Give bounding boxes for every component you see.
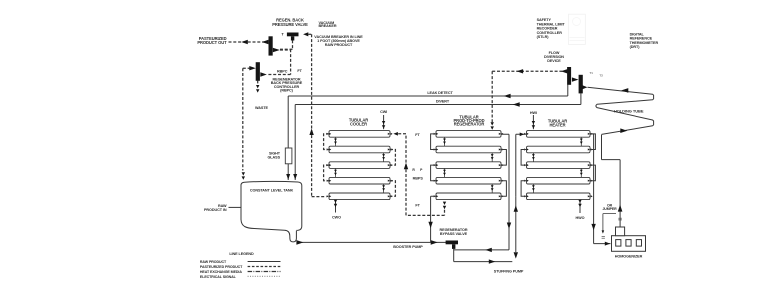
cooler media pass 1-2 — [335, 137, 337, 146]
FDD valve 1 body — [567, 67, 571, 85]
svg-text:LEAK DETECT: LEAK DETECT — [427, 91, 453, 95]
regenerator outer right U-bend 2-3 — [501, 150, 506, 166]
HWO outlet line — [579, 200, 581, 213]
heater outer right U-bend 3-4 — [590, 165, 595, 181]
svg-text:T1: T1 — [590, 71, 594, 75]
arrow from vacuum breaker line into regen back pressure valve — [303, 32, 308, 36]
regenerator tube 2 — [436, 146, 501, 153]
dashed drop into regenerator tube 1 — [491, 71, 493, 122]
leak detect line — [288, 85, 568, 180]
homogenizer outlet riser — [602, 135, 621, 227]
raw product in line — [229, 206, 242, 208]
cooler media pass 3-4 — [335, 168, 337, 177]
svg-text:HWO: HWO — [576, 216, 585, 220]
bypass valve drop and stuffing pump loop — [454, 134, 513, 261]
heater outer right U-bend 1-2 — [590, 134, 595, 150]
regenerator outer left U-bend 1-2 — [431, 134, 436, 150]
HWI inlet line — [532, 115, 534, 129]
pasteurized product out line (dashed) — [229, 41, 269, 43]
svg-text:HEATER: HEATER — [549, 122, 565, 127]
cooler outer left U-bend 1-2 — [324, 134, 329, 150]
svg-text:PASTEURIZED PRODUCT: PASTEURIZED PRODUCT — [200, 265, 243, 269]
svg-text:BOOSTER PUMP: BOOSTER PUMP — [393, 245, 423, 249]
regenerator media pass 4-5 — [491, 184, 493, 193]
valve A: pasteurized product outlet valve body — [269, 36, 273, 55]
heater tube 1 — [527, 131, 591, 138]
dashed drop to RBPC valve arm — [267, 49, 291, 74]
svg-text:HWI: HWI — [530, 111, 537, 115]
regenerator media pass 2-3 — [491, 153, 493, 162]
FDD valve 1 to valve 2 arm — [572, 77, 579, 81]
heater tube 5 — [527, 193, 591, 200]
svg-text:CONSTANT LEVEL TANK: CONSTANT LEVEL TANK — [250, 188, 294, 192]
heater media pass 1-2 — [580, 137, 582, 146]
regenerator tube 3 — [436, 162, 501, 169]
holding tube zigzag — [588, 87, 654, 134]
valve A side arm — [273, 48, 280, 53]
forward flow dashed line from FDD to regenerator — [492, 70, 567, 72]
cooler tube 4 — [329, 177, 390, 184]
regenerator media pass 3-4 — [444, 168, 446, 177]
svg-text:DEVICE: DEVICE — [547, 59, 561, 63]
svg-text:(STLR): (STLR) — [537, 35, 550, 39]
svg-text:COOLER: COOLER — [350, 122, 367, 127]
heater outlet down to homogenizer — [590, 134, 611, 244]
svg-text:RBPS: RBPS — [413, 176, 424, 180]
svg-text:PRESSURE VALVE: PRESSURE VALVE — [272, 22, 308, 27]
svg-text:PRODUCT IN: PRODUCT IN — [204, 208, 227, 212]
svg-text:HEAT EXCHANGE MEDIA: HEAT EXCHANGE MEDIA — [200, 270, 242, 274]
heater tube 2 — [527, 146, 591, 153]
heater media pass 3-4 — [580, 168, 582, 177]
constant level tank — [241, 181, 302, 230]
heater outer left U-bend 2-3 — [521, 150, 526, 166]
regenerator bypass valve body — [446, 241, 458, 245]
svg-text:STUFFING PUMP: STUFFING PUMP — [494, 269, 524, 273]
FDD valve 2 outlet arm to holding tube — [582, 85, 587, 89]
heater outer left U-bend 4-5 — [521, 181, 526, 197]
svg-text:GLASS: GLASS — [267, 155, 280, 159]
regenerator raw outlet drop to booster line — [431, 196, 436, 242]
svg-text:REGENERATOR: REGENERATOR — [454, 122, 485, 127]
CWI inlet line — [383, 115, 385, 129]
cooler media pass 2-3 — [383, 153, 385, 162]
svg-text:LINE LEGEND: LINE LEGEND — [229, 252, 254, 256]
FDD valve 2 body — [579, 75, 583, 94]
svg-text:PRODUCT OUT: PRODUCT OUT — [197, 40, 227, 45]
svg-text:CWI: CWI — [380, 110, 387, 114]
homogenizer — [612, 236, 646, 252]
svg-text:JUMPER: JUMPER — [602, 207, 617, 211]
svg-text:RBPC: RBPC — [277, 69, 288, 73]
svg-text:RAW PRODUCT: RAW PRODUCT — [325, 43, 353, 47]
CWO outlet line — [335, 200, 337, 213]
regen back pressure valve body — [287, 33, 299, 37]
heater tube 3 — [527, 162, 591, 169]
faint STLR recorder box — [569, 14, 586, 44]
waste drop from valve B — [257, 80, 259, 84]
RBPC controller valve body (valve B) — [256, 62, 260, 81]
vacuum breaker riser (dashed vertical) — [312, 34, 327, 196]
valve B left arm arrow — [249, 66, 256, 70]
svg-text:HOMOGENIZER: HOMOGENIZER — [615, 254, 643, 258]
cooler outer right U-bend 4-5 — [390, 181, 395, 197]
cooler tube 3 — [329, 162, 390, 169]
booster pump line from tank outlet — [297, 241, 447, 243]
svg-text:T2: T2 — [600, 74, 604, 78]
stuffing pump feed down arrow — [515, 196, 517, 252]
svg-text:FT: FT — [415, 133, 420, 137]
cooler tube 5 — [329, 193, 390, 200]
cooler media pass 4-5 — [383, 184, 385, 193]
valve B bottom arm arrow — [260, 72, 267, 76]
svg-text:HOLDING TUBE: HOLDING TUBE — [614, 108, 644, 113]
svg-text:DIVERT: DIVERT — [436, 100, 450, 104]
heater media pass 2-3 — [532, 153, 534, 162]
cooler outer right U-bend 2-3 — [390, 150, 395, 166]
regen back pressure valve stem down (dashed) — [280, 40, 293, 49]
svg-text:(RBPC): (RBPC) — [280, 88, 293, 92]
regenerator outlet dashed to cooler (FT line) — [443, 206, 446, 209]
regenerator tube 1 — [436, 131, 501, 138]
regenerator tube 5 — [436, 193, 501, 200]
sight glass — [285, 148, 292, 164]
svg-text:WASTE: WASTE — [255, 106, 269, 110]
cooler outer left U-bend 3-4 — [324, 165, 329, 181]
cooler tube 2 — [329, 146, 390, 153]
regenerator tube 4 — [436, 177, 501, 184]
divert line — [295, 93, 581, 180]
svg-text:BYPASS VALVE: BYPASS VALVE — [440, 232, 468, 236]
svg-text:BREAKER: BREAKER — [319, 24, 337, 28]
overflow dashed line to constant level tank — [242, 68, 244, 170]
svg-text:RAW PRODUCT: RAW PRODUCT — [200, 260, 227, 264]
svg-text:(DRT): (DRT) — [630, 45, 641, 49]
cooler tube 1 — [329, 131, 390, 138]
heater tube 4 — [527, 177, 591, 184]
svg-text:CWO: CWO — [332, 216, 341, 220]
svg-text:ELECTRICAL SIGNAL: ELECTRICAL SIGNAL — [200, 275, 237, 279]
regenerator media pass 1-2 — [444, 137, 446, 146]
stuffing pump riser to heater — [516, 134, 527, 196]
heater media pass 4-5 — [532, 184, 534, 193]
regenerator outer left U-bend 3-4 — [431, 165, 436, 181]
regenerator outer right U-bend 4-5 — [501, 181, 506, 197]
